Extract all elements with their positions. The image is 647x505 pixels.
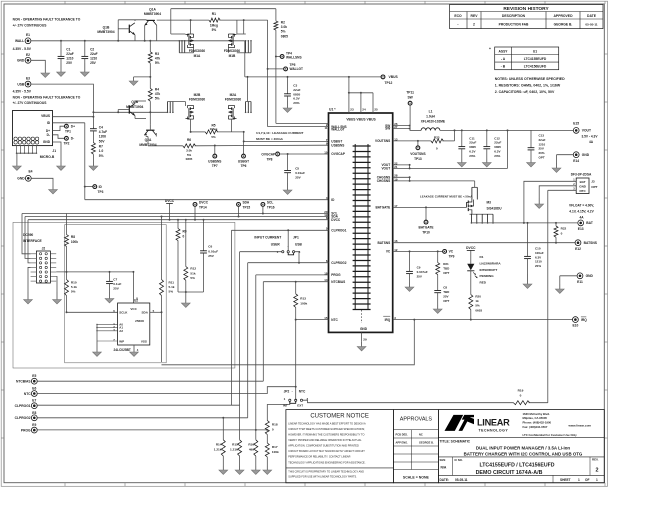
terminal E3 USB bbox=[13, 77, 32, 94]
terminal E14 GND bbox=[557, 152, 590, 163]
eeprom U2 24LC025BT bbox=[113, 297, 154, 353]
svg-text:E13: E13 bbox=[578, 227, 584, 231]
svg-text:25V: 25V bbox=[66, 61, 73, 65]
svg-text:R21: R21 bbox=[443, 262, 449, 266]
test point TP16 SCL bbox=[261, 200, 275, 214]
transistor Q2B bbox=[117, 100, 146, 118]
test point TP2 D- bbox=[53, 135, 75, 146]
U1 ground pin 29 bbox=[362, 332, 367, 341]
svg-text:INTERFACE: INTERFACE bbox=[23, 239, 42, 243]
resistor R1 bbox=[157, 12, 245, 34]
ground at J3 GND bbox=[538, 198, 540, 204]
ground at C8 bbox=[437, 305, 439, 310]
ground below R12 C6 bbox=[185, 292, 187, 303]
svg-text:USBGT: USBGT bbox=[238, 160, 249, 164]
ground at R15 bbox=[239, 466, 241, 470]
ground at C12 bbox=[486, 159, 488, 163]
terminal E6 NTC bbox=[24, 386, 297, 397]
svg-text:5%: 5% bbox=[169, 290, 174, 294]
svg-text:IRQ: IRQ bbox=[581, 318, 587, 322]
svg-text:IC NO.: IC NO. bbox=[455, 458, 463, 462]
svg-text:TP16: TP16 bbox=[267, 206, 275, 210]
svg-text:NON - OPERATING FAULT TOLERANC: NON - OPERATING FAULT TOLERANCE TO bbox=[13, 95, 81, 99]
svg-text:TP7: TP7 bbox=[212, 164, 218, 168]
resistor R4 bbox=[148, 88, 160, 125]
connector J2 header bbox=[31, 246, 57, 283]
svg-text:TP9: TP9 bbox=[449, 255, 455, 259]
wire BATGATE bbox=[393, 206, 467, 208]
svg-text:E1: E1 bbox=[26, 33, 30, 37]
svg-text:R16: R16 bbox=[248, 443, 254, 447]
svg-text:NON - OPERATING FAULT TOLERANC: NON - OPERATING FAULT TOLERANCE TO bbox=[13, 18, 81, 22]
ground at J2 left bbox=[27, 292, 29, 300]
resistor R18 bbox=[265, 402, 290, 444]
svg-text:GND: GND bbox=[582, 153, 590, 157]
svg-text:1210: 1210 bbox=[535, 260, 542, 264]
svg-text:CLPROG1: CLPROG1 bbox=[15, 404, 31, 408]
mosfet M2A FDMC8030 bbox=[225, 76, 252, 119]
note: non-operating fault tolerance (usb) bbox=[13, 95, 81, 105]
svg-text:5%: 5% bbox=[190, 276, 195, 280]
svg-text:DEMO CIRCUIT 1674A-A/B: DEMO CIRCUIT 1674A-A/B bbox=[476, 470, 543, 476]
svg-text:4.7uF: 4.7uF bbox=[99, 130, 107, 134]
svg-text:USB: USB bbox=[17, 83, 25, 87]
svg-text:C9: C9 bbox=[417, 266, 421, 270]
ground at C3 bbox=[287, 101, 289, 108]
svg-text:NTCBIAS: NTCBIAS bbox=[16, 380, 31, 384]
ground at E4 bbox=[52, 187, 54, 190]
svg-text:C13: C13 bbox=[539, 134, 545, 138]
svg-text:NTCBIAS: NTCBIAS bbox=[331, 280, 345, 284]
svg-text:LTC4156EUFD: LTC4156EUFD bbox=[524, 64, 547, 68]
svg-text:R8: R8 bbox=[71, 235, 75, 239]
wire IRQ rail bbox=[393, 319, 573, 321]
mosfet M2B FDMC8030 bbox=[167, 93, 206, 119]
test point TP3 ID bbox=[84, 185, 104, 194]
label DC590 INTERFACE bbox=[23, 233, 42, 243]
ground at U1 pin 29 bbox=[361, 342, 363, 347]
svg-text:C10: C10 bbox=[535, 247, 541, 251]
svg-text:25V: 25V bbox=[90, 61, 97, 65]
svg-text:TITLE: SCHEMATIC: TITLE: SCHEMATIC bbox=[440, 440, 471, 444]
svg-text:C2: C2 bbox=[90, 48, 94, 52]
test point TP8 OVGCAP bbox=[261, 152, 328, 161]
svg-text:+/- 27V CONTINUOUS: +/- 27V CONTINUOUS bbox=[13, 101, 48, 105]
resistor R9 bbox=[176, 219, 187, 262]
svg-text:SCLK: SCLK bbox=[119, 311, 128, 315]
svg-text:WALL: WALL bbox=[15, 39, 24, 43]
wire U2 SCLK bbox=[67, 311, 118, 313]
ground at R14 bbox=[222, 466, 224, 470]
jumper JP1 input current select bbox=[254, 236, 302, 255]
svg-text:LINEAR TECHNOLOGY HAS MADE A B: LINEAR TECHNOLOGY HAS MADE A BEST EFFORT… bbox=[288, 422, 366, 425]
svg-text:Milpitas, CA 95035: Milpitas, CA 95035 bbox=[523, 416, 548, 420]
wire J2 right pins to ground bbox=[55, 277, 58, 292]
customer notice box bbox=[286, 410, 394, 483]
svg-text:APPLICATION. COMPONENT SUBSTIT: APPLICATION. COMPONENT SUBSTITUTION AND … bbox=[288, 445, 359, 448]
mosfet M1A FDMC8030 bbox=[171, 34, 206, 58]
svg-text:R10: R10 bbox=[71, 281, 77, 285]
svg-text:CLPROG2: CLPROG2 bbox=[331, 261, 346, 265]
svg-text:J1: J1 bbox=[52, 149, 56, 153]
svg-text:JP1: JP1 bbox=[293, 236, 299, 240]
svg-text:ECO: ECO bbox=[454, 14, 462, 18]
svg-text:WP: WP bbox=[119, 339, 124, 343]
svg-text:OPT: OPT bbox=[591, 185, 597, 189]
svg-text:VSS: VSS bbox=[141, 339, 147, 343]
terminal E13 BAT bbox=[578, 220, 593, 231]
resistor R15 bbox=[230, 405, 242, 466]
wire J1 GND pin to ground bbox=[53, 142, 62, 162]
terminal E8 CLPROG2 bbox=[15, 411, 248, 421]
svg-text:20%: 20% bbox=[494, 154, 500, 158]
U1 right pin labels bbox=[375, 122, 398, 322]
svg-text:R3: R3 bbox=[155, 52, 159, 56]
svg-text:C5: C5 bbox=[295, 166, 299, 170]
svg-text:TP3: TP3 bbox=[98, 190, 104, 194]
svg-text:LTC4155EUFD / LTC4156EUFD: LTC4155EUFD / LTC4156EUFD bbox=[479, 462, 554, 468]
svg-text:CHGSNS: CHGSNS bbox=[377, 179, 390, 183]
svg-text:5.1k: 5.1k bbox=[169, 285, 175, 289]
transistor Q2A bbox=[139, 111, 156, 147]
DC590 interface enclosure box bbox=[13, 222, 235, 368]
resistor R7 bbox=[91, 143, 103, 162]
ground at U2 WP bbox=[96, 341, 98, 352]
assembly option table ASSY bbox=[489, 46, 559, 69]
svg-text:HOWEVER, IT REMAINS THE CUSTOM: HOWEVER, IT REMAINS THE CUSTOMERS RESPON… bbox=[288, 434, 364, 437]
svg-text:50V: 50V bbox=[99, 139, 106, 143]
svg-text:BATSNS: BATSNS bbox=[378, 241, 391, 245]
wire SW pins bbox=[393, 125, 411, 130]
svg-text:PROG: PROG bbox=[331, 273, 341, 277]
ground at J1 GND bbox=[60, 162, 62, 166]
svg-text:SDA: SDA bbox=[243, 200, 250, 204]
svg-text:R22: R22 bbox=[561, 227, 567, 231]
svg-text:D+: D+ bbox=[46, 129, 50, 133]
label DVCC pullup bbox=[466, 246, 476, 264]
svg-text:1630 McCarthy Blvd.: 1630 McCarthy Blvd. bbox=[523, 412, 551, 416]
svg-text:TP15: TP15 bbox=[243, 206, 251, 210]
test point TP7 USBSNS bbox=[208, 145, 221, 169]
svg-text:USBSNS: USBSNS bbox=[331, 143, 344, 147]
svg-text:E6: E6 bbox=[32, 387, 36, 391]
svg-text:E14: E14 bbox=[573, 159, 579, 163]
svg-text:E10: E10 bbox=[572, 324, 578, 328]
svg-text:20%: 20% bbox=[535, 264, 541, 268]
resistor R3 bbox=[148, 41, 160, 89]
svg-text:20%: 20% bbox=[539, 151, 545, 155]
terminal E1 WALL bbox=[13, 33, 32, 51]
resistor R11 bbox=[160, 216, 175, 314]
wire BAT rail bbox=[471, 222, 577, 224]
test point TP15 SDA bbox=[237, 200, 251, 217]
svg-text:5%: 5% bbox=[155, 97, 160, 101]
svg-text:TBD: TBD bbox=[443, 266, 450, 270]
resistor R6 bbox=[148, 137, 329, 162]
svg-text:TP5: TP5 bbox=[290, 63, 296, 67]
svg-text:22uF: 22uF bbox=[66, 52, 73, 56]
test point TP12 VBUS bbox=[381, 75, 398, 85]
svg-text:5%: 5% bbox=[212, 28, 217, 32]
svg-text:M2B: M2B bbox=[194, 93, 201, 97]
connector J3 DF3-3P-2DSA bbox=[571, 173, 598, 194]
ground at R17 bbox=[266, 466, 268, 470]
terminal E15 VOUT bbox=[573, 122, 598, 145]
svg-text:TP11: TP11 bbox=[406, 91, 414, 95]
capacitor C5 bbox=[284, 154, 305, 183]
svg-text:FDMC8030: FDMC8030 bbox=[189, 49, 206, 53]
revision history table bbox=[450, 5, 603, 29]
svg-text:0.01uF: 0.01uF bbox=[295, 171, 305, 175]
svg-text:1.21k: 1.21k bbox=[214, 448, 222, 452]
wire JP2 ext to R19 bbox=[303, 400, 514, 403]
capacitor C10 bbox=[524, 223, 544, 274]
terminal E7 CLPROG1 bbox=[15, 399, 240, 409]
svg-text:TBD: TBD bbox=[443, 290, 450, 294]
resistor R8 bbox=[65, 214, 79, 280]
svg-text:VC: VC bbox=[449, 250, 454, 254]
svg-text:5%: 5% bbox=[99, 154, 104, 158]
svg-text:LEAKAGE CURRENT MUST BE < 50nA: LEAKAGE CURRENT MUST BE < 50nA bbox=[420, 194, 472, 198]
svg-text:-: - bbox=[457, 22, 458, 26]
wire WALLGT to pin 11 bbox=[268, 126, 329, 128]
svg-text:1.0uH: 1.0uH bbox=[426, 114, 435, 118]
wire CLPROG1 drop bbox=[231, 230, 233, 405]
U1 left pin labels bbox=[324, 123, 346, 322]
ground at J2 right bbox=[56, 292, 58, 300]
svg-text:BATGATE: BATGATE bbox=[375, 206, 390, 210]
svg-text:TP6: TP6 bbox=[241, 164, 247, 168]
svg-text:R20: R20 bbox=[475, 295, 481, 299]
svg-text:47k: 47k bbox=[155, 92, 161, 96]
svg-text:10: 10 bbox=[324, 150, 328, 154]
svg-text:VOUT: VOUT bbox=[381, 167, 390, 171]
note: VFLOAT values bbox=[569, 203, 595, 219]
wire CLPROG2 rail bbox=[248, 262, 329, 418]
resistor R20 bbox=[469, 295, 483, 320]
wire J3 BAT pin bbox=[524, 181, 576, 223]
svg-text:MUST BE < 400nA: MUST BE < 400nA bbox=[256, 137, 283, 141]
svg-text:0805: 0805 bbox=[293, 92, 300, 96]
svg-text:USB: USB bbox=[295, 242, 302, 246]
svg-text:256X8: 256X8 bbox=[135, 319, 144, 323]
svg-text:6.3V: 6.3V bbox=[494, 150, 500, 154]
svg-text:2: 2 bbox=[473, 22, 475, 26]
svg-text:0.047uF: 0.047uF bbox=[417, 270, 428, 274]
svg-text:DESCRIPTION: DESCRIPTION bbox=[502, 14, 526, 18]
wire ID rail to U1 bbox=[85, 199, 329, 201]
wire JP1 user to E7 column bbox=[240, 252, 282, 406]
svg-text:5%: 5% bbox=[155, 61, 160, 65]
svg-text:05-05-11: 05-05-11 bbox=[585, 22, 597, 26]
inductor L1 bbox=[410, 109, 577, 131]
svg-text:R14: R14 bbox=[216, 443, 222, 447]
svg-text:3.0k: 3.0k bbox=[281, 25, 287, 29]
svg-text:VERIFY PROPER AND RELIABLE OPE: VERIFY PROPER AND RELIABLE OPERATION IN … bbox=[288, 439, 362, 442]
svg-text:100k: 100k bbox=[272, 450, 279, 454]
terminal E2 GND bbox=[17, 53, 31, 63]
title block schematic title bbox=[438, 440, 604, 483]
svg-text:DVCC: DVCC bbox=[466, 246, 476, 250]
svg-text:05-05-11: 05-05-11 bbox=[455, 478, 468, 482]
capacitor C4 bbox=[90, 125, 107, 143]
svg-text:CIRCUIT THAT MEETS CUSTOMER-SU: CIRCUIT THAT MEETS CUSTOMER-SUPPLIED SPE… bbox=[288, 428, 365, 431]
resistor R10 bbox=[65, 280, 78, 314]
svg-text:23: 23 bbox=[350, 108, 354, 112]
capacitor C2 bbox=[81, 40, 97, 65]
svg-text:100uF: 100uF bbox=[535, 251, 544, 255]
test point TP9 VC bbox=[443, 250, 455, 259]
svg-text:0805: 0805 bbox=[186, 157, 193, 161]
svg-text:0: 0 bbox=[183, 235, 185, 239]
svg-text:20%: 20% bbox=[469, 154, 475, 158]
svg-text:LTC4155EUFD: LTC4155EUFD bbox=[524, 57, 547, 61]
terminal E9 PROG bbox=[21, 423, 267, 433]
wire DVCC rail bbox=[28, 219, 329, 221]
svg-text:0805: 0805 bbox=[281, 34, 288, 38]
svg-text:FDMC8030: FDMC8030 bbox=[225, 98, 242, 102]
resistor R21 bbox=[436, 251, 450, 290]
svg-text:1210: 1210 bbox=[539, 142, 546, 146]
svg-text:CLPROG1: CLPROG1 bbox=[331, 229, 346, 233]
svg-text:4.35V - 5.5V: 4.35V - 5.5V bbox=[13, 47, 32, 51]
resistor R2 bbox=[274, 9, 288, 124]
svg-text:REVISION HISTORY: REVISION HISTORY bbox=[503, 6, 549, 12]
svg-text:INTERRUPT: INTERRUPT bbox=[480, 268, 498, 272]
test point TP6 USBGT bbox=[238, 141, 249, 168]
svg-text:5%: 5% bbox=[211, 135, 216, 139]
svg-text:0: 0 bbox=[272, 428, 274, 432]
wire USB rail bbox=[31, 84, 168, 128]
svg-text:29: 29 bbox=[363, 337, 367, 341]
svg-text:PERFORMANCE OR RELIABILITY. C: PERFORMANCE OR RELIABILITY. CONTACT LINE… bbox=[288, 456, 350, 459]
resistor R22 bbox=[554, 223, 567, 244]
svg-text:OPT: OPT bbox=[443, 271, 449, 275]
svg-text:MMBT3904: MMBT3904 bbox=[144, 12, 161, 16]
svg-text:1.21k: 1.21k bbox=[230, 448, 238, 452]
svg-text:BAT: BAT bbox=[580, 180, 586, 184]
svg-text:NTC: NTC bbox=[580, 189, 587, 193]
svg-text:R2: R2 bbox=[281, 21, 285, 25]
svg-text:R23: R23 bbox=[434, 135, 440, 139]
ground at C1 bbox=[60, 63, 62, 72]
svg-text:REV: REV bbox=[471, 14, 479, 18]
wire SDA rail bbox=[25, 216, 329, 218]
svg-text:SUPPLIED FOR USE WITH LINEAR T: SUPPLIED FOR USE WITH LINEAR TECHNOLOGY … bbox=[288, 476, 357, 479]
svg-text:- A: - A bbox=[501, 57, 506, 61]
svg-text:NTC: NTC bbox=[24, 392, 31, 396]
wire WALL rail bbox=[31, 40, 245, 42]
mosfet M1B FDMC8030 bbox=[224, 20, 252, 58]
svg-text:Q1A: Q1A bbox=[149, 7, 156, 11]
svg-text:LTC Confidential For Customer: LTC Confidential For Customer Use Only bbox=[523, 433, 578, 437]
svg-text:25V: 25V bbox=[417, 275, 422, 279]
svg-text:SDA: SDA bbox=[142, 311, 149, 315]
svg-text:N/A: N/A bbox=[441, 466, 447, 470]
terminal E4 GND bbox=[17, 170, 53, 187]
svg-text:APPROVALS: APPROVALS bbox=[400, 417, 433, 423]
svg-text:E11: E11 bbox=[577, 280, 583, 284]
svg-text:1210: 1210 bbox=[90, 57, 97, 61]
svg-text:M1A: M1A bbox=[194, 54, 201, 58]
svg-text:E12: E12 bbox=[575, 247, 581, 251]
svg-text:4A: 4A bbox=[579, 215, 584, 219]
svg-text:FDMC8030: FDMC8030 bbox=[224, 49, 241, 53]
wire J2 to I2C rails bbox=[22, 214, 31, 263]
svg-text:BATGATE: BATGATE bbox=[419, 225, 434, 229]
svg-text:6.3V: 6.3V bbox=[293, 97, 300, 101]
svg-text:DVCC: DVCC bbox=[165, 199, 175, 203]
wire SCL rail bbox=[22, 213, 329, 215]
svg-text:CIRCUIT BOARD LAYOUT MAY SIGNI: CIRCUIT BOARD LAYOUT MAY SIGNIFICANTLY A… bbox=[288, 450, 365, 453]
resistor R17 bbox=[265, 443, 279, 466]
svg-text:R4: R4 bbox=[155, 88, 159, 92]
svg-text:51k: 51k bbox=[190, 271, 195, 275]
svg-text:100k: 100k bbox=[300, 302, 307, 306]
wire J3 GND pin bbox=[539, 186, 576, 198]
svg-text:PRODUCTION FAB: PRODUCTION FAB bbox=[499, 22, 529, 26]
wire CLPROG1 rail bbox=[232, 229, 329, 250]
svg-text:0.01uF: 0.01uF bbox=[208, 249, 218, 253]
svg-text:SIZE: SIZE bbox=[440, 458, 446, 462]
wire VBUS rail to TP12 bbox=[245, 76, 381, 78]
svg-text:R11: R11 bbox=[169, 281, 175, 285]
svg-text:0805: 0805 bbox=[494, 145, 501, 149]
wire CHGSNS pins bbox=[393, 176, 475, 187]
ground at C2 bbox=[84, 63, 86, 72]
resistor R14 bbox=[214, 418, 226, 466]
test point TP1 D+ bbox=[53, 124, 76, 133]
svg-text:WALLGT: WALLGT bbox=[290, 67, 304, 71]
svg-text:C8: C8 bbox=[443, 286, 447, 290]
resistor R5 bbox=[190, 119, 245, 139]
svg-text:M1B: M1B bbox=[229, 54, 236, 58]
svg-text:VCC: VCC bbox=[130, 307, 137, 311]
svg-text:DF3-3P-2DSA: DF3-3P-2DSA bbox=[571, 173, 592, 177]
svg-text:0: 0 bbox=[520, 393, 522, 397]
svg-text:VBUS: VBUS bbox=[389, 75, 399, 79]
svg-text:D-: D- bbox=[47, 133, 50, 137]
svg-text:C6: C6 bbox=[208, 245, 212, 249]
wire U2 VSS bbox=[133, 345, 135, 348]
ground at C13 bbox=[530, 159, 532, 163]
svg-text:5.1k: 5.1k bbox=[71, 285, 77, 289]
svg-text:PENDING: PENDING bbox=[480, 274, 495, 278]
svg-text:JP2: JP2 bbox=[284, 390, 290, 394]
svg-text:2: 2 bbox=[596, 467, 599, 473]
svg-text:GND: GND bbox=[360, 327, 368, 331]
svg-text:XFL4020-102ME: XFL4020-102ME bbox=[421, 119, 445, 123]
wire J1 ID pin bbox=[53, 123, 85, 200]
notes text bbox=[495, 77, 565, 94]
test point TP14 DVCC bbox=[193, 200, 209, 220]
svg-text:SiS418DU: SiS418DU bbox=[487, 206, 503, 210]
svg-text:TP14: TP14 bbox=[199, 206, 207, 210]
wire U2 address pins bbox=[96, 324, 117, 341]
svg-text:BAT: BAT bbox=[586, 221, 593, 225]
svg-text:C1: C1 bbox=[66, 48, 70, 52]
svg-text:D-: D- bbox=[71, 137, 74, 141]
svg-text:GEORGE B.: GEORGE B. bbox=[419, 440, 434, 444]
svg-text:6.3V: 6.3V bbox=[469, 150, 475, 154]
svg-text:2. CAPACITORS: uF, 0402, 10%,: 2. CAPACITORS: uF, 0402, 10%, 50V bbox=[495, 90, 555, 94]
svg-text:- B: - B bbox=[501, 64, 506, 68]
svg-text:TP10: TP10 bbox=[422, 231, 430, 235]
svg-text:0: 0 bbox=[436, 147, 438, 151]
svg-text:25V: 25V bbox=[208, 254, 214, 258]
jumper JP2 NTC int/ext bbox=[283, 390, 309, 408]
svg-text:TP8: TP8 bbox=[267, 157, 273, 161]
